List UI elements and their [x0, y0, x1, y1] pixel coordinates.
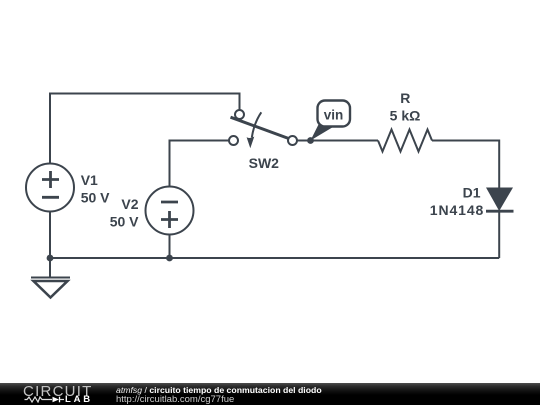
- svg-text:1N4148: 1N4148: [430, 202, 484, 218]
- svg-text:50 V: 50 V: [81, 189, 110, 205]
- svg-text:50 V: 50 V: [110, 214, 139, 230]
- svg-text:R: R: [400, 90, 410, 106]
- svg-text:SW2: SW2: [249, 155, 280, 171]
- svg-text:vin: vin: [324, 108, 344, 123]
- svg-text:V1: V1: [81, 172, 98, 188]
- svg-text:V2: V2: [121, 196, 138, 212]
- svg-text:D1: D1: [463, 185, 481, 201]
- svg-text:5 kΩ: 5 kΩ: [390, 107, 421, 123]
